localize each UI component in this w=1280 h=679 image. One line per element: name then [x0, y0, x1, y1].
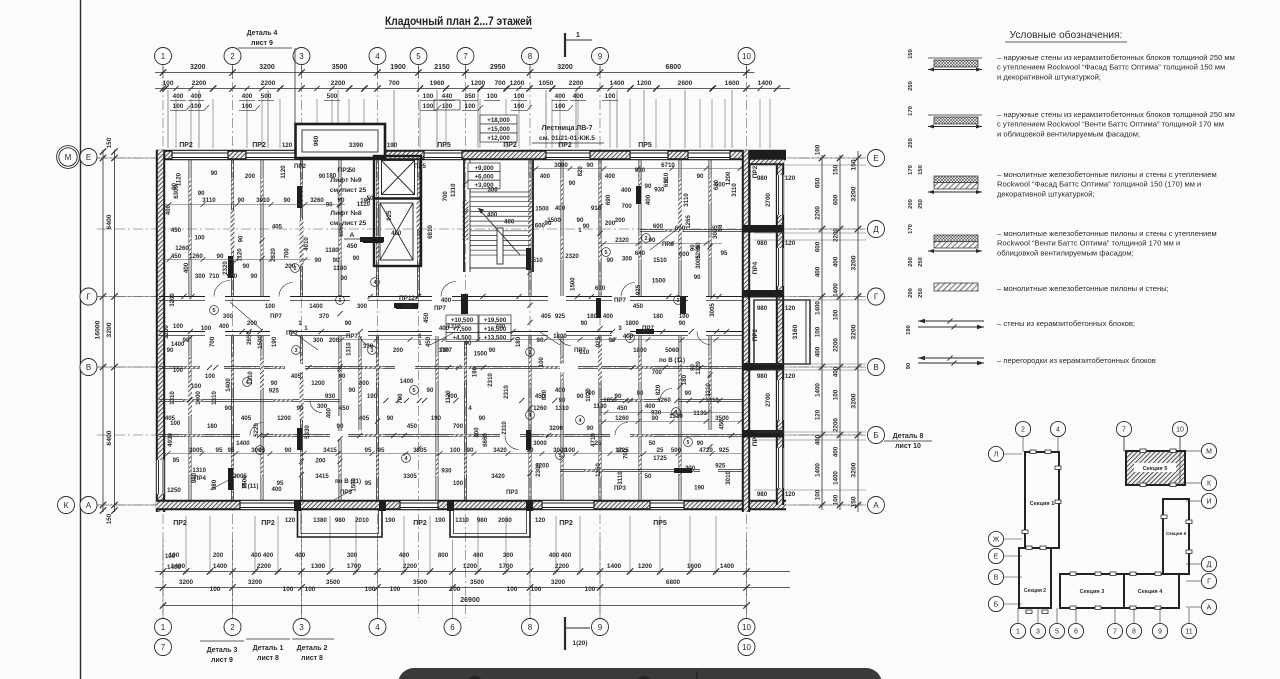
- svg-text:8: 8: [1132, 629, 1136, 636]
- svg-text:2200: 2200: [257, 563, 272, 570]
- right pylon at Д: [742, 225, 784, 233]
- svg-text:9: 9: [1158, 629, 1162, 636]
- circled reference numbers: [291, 264, 300, 273]
- right side wing extension lines: [754, 164, 866, 166]
- svg-text:3415: 3415: [323, 447, 337, 454]
- svg-text:650: 650: [815, 177, 822, 188]
- svg-text:90: 90: [353, 256, 360, 262]
- svg-text:820: 820: [541, 389, 548, 400]
- right dimension chains: [821, 155, 823, 510]
- svg-text:1500: 1500: [535, 205, 549, 212]
- corridor upper wall: [159, 296, 742, 298]
- svg-text:90: 90: [339, 373, 346, 380]
- svg-text:600: 600: [595, 285, 606, 292]
- svg-text:405: 405: [165, 415, 176, 422]
- svg-text:200: 200: [615, 217, 626, 224]
- svg-text:150: 150: [918, 165, 924, 175]
- svg-text:– наружные стены из керамзитоб: – наружные стены из керамзитобетонных бл…: [997, 53, 1235, 62]
- elevator shaft walls: [374, 156, 421, 266]
- corridor door gaps: [205, 296, 225, 302]
- svg-text:3200: 3200: [248, 579, 263, 586]
- svg-text:100: 100: [201, 325, 212, 332]
- svg-text:ПР7: ПР7: [614, 297, 627, 304]
- svg-text:2320: 2320: [565, 253, 579, 260]
- svg-text:1400: 1400: [833, 471, 840, 485]
- bottom exterior wall: [156, 500, 786, 510]
- svg-text:2200: 2200: [833, 418, 840, 432]
- svg-text:Деталь 2: Деталь 2: [297, 645, 328, 652]
- svg-text:100: 100: [390, 586, 401, 593]
- svg-text:700: 700: [283, 248, 290, 259]
- svg-text:5: 5: [413, 388, 416, 394]
- svg-text:3200: 3200: [851, 186, 858, 201]
- svg-text:925: 925: [715, 462, 726, 469]
- svg-text:90: 90: [326, 201, 333, 208]
- scale flag top: [564, 33, 566, 57]
- extra tick marks on partitions: [674, 398, 679, 403]
- svg-text:2700: 2700: [765, 393, 772, 407]
- svg-text:ПР3: ПР3: [506, 489, 519, 496]
- svg-text:3420: 3420: [493, 447, 507, 454]
- svg-text:+9,000: +9,000: [474, 165, 494, 172]
- svg-text:ПР2: ПР2: [173, 520, 187, 527]
- svg-text:10: 10: [742, 623, 751, 632]
- svg-text:90: 90: [690, 244, 697, 251]
- svg-text:180: 180: [587, 313, 598, 320]
- svg-text:1200: 1200: [510, 80, 525, 87]
- svg-text:405: 405: [359, 415, 370, 422]
- svg-text:1200: 1200: [535, 463, 549, 470]
- svg-text:1200: 1200: [277, 415, 291, 422]
- svg-text:200: 200: [329, 337, 340, 344]
- svg-text:100: 100: [450, 447, 461, 454]
- svg-text:90: 90: [238, 235, 245, 242]
- svg-text:1500: 1500: [257, 335, 264, 349]
- svg-text:1260: 1260: [175, 245, 189, 252]
- svg-text:90: 90: [427, 387, 434, 394]
- svg-text:11: 11: [1185, 629, 1192, 636]
- svg-text:250: 250: [918, 257, 924, 267]
- svg-text:Секция 3: Секция 3: [1080, 589, 1105, 595]
- svg-text:90: 90: [225, 405, 232, 412]
- svg-text:1400: 1400: [225, 378, 232, 392]
- svg-text:3390: 3390: [349, 142, 364, 149]
- svg-text:декоративной штукатуркой;: декоративной штукатуркой;: [997, 189, 1095, 198]
- svg-text:26900: 26900: [460, 597, 480, 604]
- svg-text:1180: 1180: [325, 247, 339, 254]
- svg-text:3200: 3200: [259, 64, 275, 71]
- svg-text:610: 610: [663, 176, 670, 187]
- svg-text:95: 95: [216, 447, 223, 454]
- svg-text:90: 90: [285, 447, 292, 454]
- svg-text:500: 500: [327, 93, 338, 100]
- svg-text:1725: 1725: [653, 455, 667, 462]
- svg-text:3110: 3110: [731, 183, 738, 197]
- svg-text:Е: Е: [994, 554, 999, 561]
- svg-text:400: 400: [326, 407, 333, 418]
- svg-text:190: 190: [385, 517, 396, 524]
- svg-text:10: 10: [742, 643, 751, 652]
- ПР12 pylon: [396, 303, 418, 309]
- svg-text:3305: 3305: [403, 473, 417, 480]
- svg-text:– монолитные железобетонные пи: – монолитные железобетонные пилоны и сте…: [997, 284, 1169, 293]
- svg-text:100: 100: [585, 586, 596, 593]
- svg-text:1400: 1400: [720, 563, 735, 570]
- svg-text:170: 170: [908, 224, 914, 234]
- svg-text:4010: 4010: [303, 237, 310, 251]
- svg-text:700: 700: [442, 191, 449, 202]
- svg-text:1800: 1800: [625, 320, 639, 327]
- stair steps: [470, 191, 531, 193]
- interior vertical partitions lower rooms: [188, 336, 190, 500]
- svg-text:120: 120: [785, 175, 796, 182]
- svg-text:4720: 4720: [699, 447, 713, 454]
- svg-text:лист 8: лист 8: [301, 655, 323, 662]
- svg-text:90: 90: [387, 415, 394, 422]
- svg-text:980: 980: [757, 240, 768, 247]
- svg-text:ПР2: ПР2: [294, 163, 307, 170]
- svg-text:925: 925: [595, 336, 602, 347]
- svg-text:1500: 1500: [350, 478, 357, 492]
- svg-text:100: 100: [195, 234, 206, 241]
- svg-text:1050: 1050: [603, 397, 617, 404]
- svg-text:400: 400: [540, 173, 551, 180]
- svg-text:ПР9: ПР9: [662, 241, 675, 248]
- svg-text:90: 90: [697, 173, 704, 180]
- svg-text:90: 90: [338, 197, 345, 204]
- svg-text:450: 450: [617, 405, 628, 412]
- axis circles right: [868, 150, 885, 167]
- right main wall axis 10: [742, 150, 750, 512]
- svg-text:640: 640: [635, 250, 646, 257]
- svg-text:190: 190: [906, 325, 912, 335]
- svg-text:5330: 5330: [304, 425, 311, 439]
- svg-text:1400: 1400: [815, 463, 822, 477]
- svg-text:90: 90: [167, 347, 174, 354]
- svg-text:980: 980: [757, 305, 768, 312]
- svg-text:ПР2: ПР2: [752, 165, 759, 178]
- svg-text:25: 25: [657, 447, 664, 454]
- svg-text:200: 200: [393, 347, 404, 354]
- svg-text:925: 925: [386, 210, 393, 221]
- svg-text:600: 600: [653, 223, 664, 230]
- svg-text:Секция 6: Секция 6: [1166, 531, 1187, 536]
- svg-text:405: 405: [241, 415, 252, 422]
- svg-text:800: 800: [438, 552, 449, 559]
- bottom toolbar bar: [398, 668, 882, 679]
- svg-text:Деталь 1: Деталь 1: [253, 645, 284, 652]
- svg-text:1130: 1130: [593, 403, 607, 410]
- svg-text:400: 400: [555, 387, 566, 394]
- svg-text:6710: 6710: [661, 162, 675, 169]
- key plan section 3: [1060, 574, 1124, 608]
- svg-text:400: 400: [242, 93, 253, 100]
- svg-text:300: 300: [622, 256, 633, 263]
- svg-text:90: 90: [581, 320, 588, 327]
- svg-text:7: 7: [463, 52, 468, 61]
- svg-text:6400: 6400: [106, 430, 113, 445]
- svg-text:1500: 1500: [652, 277, 666, 284]
- svg-text:6800: 6800: [665, 64, 681, 71]
- svg-text:1200: 1200: [471, 80, 486, 87]
- svg-text:Секция 5: Секция 5: [1143, 466, 1168, 472]
- svg-text:10: 10: [1176, 427, 1184, 434]
- svg-text:ПР4: ПР4: [752, 261, 759, 274]
- svg-text:1500: 1500: [474, 351, 488, 358]
- svg-text:3110: 3110: [683, 193, 690, 207]
- svg-text:2200: 2200: [192, 80, 207, 87]
- axis circles top row: [155, 48, 172, 65]
- svg-text:1200: 1200: [637, 80, 652, 87]
- svg-text:400: 400: [441, 297, 452, 304]
- svg-text:190: 190: [694, 485, 705, 492]
- svg-text:Б: Б: [873, 431, 878, 440]
- svg-text:400: 400: [555, 93, 566, 100]
- svg-text:190: 190: [271, 336, 278, 347]
- svg-text:Деталь 8: Деталь 8: [893, 433, 924, 440]
- svg-text:2310: 2310: [487, 373, 494, 387]
- svg-text:3110: 3110: [617, 471, 624, 485]
- svg-text:980: 980: [313, 135, 320, 146]
- svg-text:9: 9: [598, 52, 603, 61]
- svg-text:820: 820: [655, 384, 662, 395]
- top exterior wall: [156, 150, 786, 160]
- svg-text:М: М: [65, 153, 72, 162]
- svg-text:ПР7: ПР7: [434, 305, 447, 312]
- legend item 5 symbol: [934, 283, 978, 291]
- svg-text:90: 90: [217, 253, 224, 260]
- svg-text:ПР2: ПР2: [752, 328, 759, 341]
- svg-text:100: 100: [442, 103, 453, 110]
- axis circles left: [59, 148, 77, 166]
- svg-text:3210: 3210: [705, 383, 712, 397]
- svg-text:ПР5: ПР5: [437, 142, 451, 149]
- svg-text:ПР2: ПР2: [413, 520, 427, 527]
- svg-text:400: 400: [555, 205, 566, 212]
- svg-text:95: 95: [365, 447, 372, 454]
- svg-text:1500: 1500: [570, 277, 577, 291]
- svg-text:3200: 3200: [557, 64, 573, 71]
- svg-text:лист 10: лист 10: [895, 443, 921, 450]
- svg-text:3: 3: [299, 623, 304, 632]
- svg-text:100: 100: [265, 303, 276, 310]
- svg-text:3200: 3200: [851, 462, 858, 477]
- svg-text:ПР7: ПР7: [346, 333, 359, 340]
- svg-text:100: 100: [191, 103, 202, 110]
- svg-text:190: 190: [435, 517, 446, 524]
- svg-text:1600: 1600: [725, 80, 740, 87]
- interior vertical partitions upper rooms: [188, 160, 190, 296]
- svg-text:2200: 2200: [833, 228, 840, 242]
- elevator cab 1 (Лифт №9): [382, 161, 415, 195]
- svg-text:190: 190: [360, 198, 371, 205]
- svg-text:5: 5: [213, 308, 216, 314]
- svg-text:90: 90: [685, 390, 692, 397]
- svg-text:Rockwool “Фасад Баттс Оптима”: Rockwool “Фасад Баттс Оптима” толщиной 1…: [997, 180, 1201, 189]
- svg-text:190: 190: [431, 415, 442, 422]
- svg-text:1310: 1310: [447, 323, 461, 330]
- svg-text:1260: 1260: [533, 405, 547, 412]
- svg-text:1200: 1200: [311, 380, 325, 387]
- svg-text:5220: 5220: [253, 423, 260, 437]
- svg-text:450: 450: [171, 253, 182, 260]
- svg-text:90: 90: [284, 197, 291, 204]
- svg-text:1: 1: [161, 52, 166, 61]
- svg-text:190: 190: [367, 393, 378, 400]
- svg-text:2700: 2700: [765, 193, 772, 207]
- svg-text:100: 100: [283, 586, 294, 593]
- svg-text:Г: Г: [86, 292, 91, 301]
- svg-text:1380: 1380: [313, 517, 327, 524]
- stair stringer: [497, 228, 503, 264]
- svg-text:7: 7: [1113, 629, 1117, 636]
- svg-text:910: 910: [227, 273, 238, 280]
- bottom dimension chains: [155, 571, 790, 573]
- svg-text:2600: 2600: [678, 80, 693, 87]
- svg-text:2310: 2310: [503, 385, 510, 399]
- top right corner pylon: [742, 150, 786, 159]
- svg-text:1200: 1200: [638, 563, 653, 570]
- key plan section 4: [1124, 574, 1179, 608]
- svg-text:980: 980: [211, 479, 218, 490]
- svg-text:180: 180: [515, 336, 522, 347]
- svg-text:100: 100: [162, 80, 173, 87]
- svg-text:90: 90: [349, 387, 356, 394]
- svg-text:1500: 1500: [547, 217, 561, 224]
- svg-text:100: 100: [210, 586, 221, 593]
- svg-text:95: 95: [721, 250, 728, 257]
- svg-text:98: 98: [717, 224, 724, 231]
- legend item 2 symbol: [928, 126, 982, 128]
- svg-text:ПР2: ПР2: [559, 520, 573, 527]
- svg-text:3010: 3010: [725, 471, 732, 485]
- svg-text:4: 4: [375, 623, 380, 632]
- svg-text:95: 95: [378, 447, 385, 454]
- svg-text:700: 700: [652, 369, 663, 376]
- svg-text:1310: 1310: [450, 183, 457, 197]
- svg-text:1020: 1020: [585, 388, 592, 402]
- svg-text:В: В: [994, 575, 999, 582]
- svg-text:А: А: [86, 501, 92, 510]
- svg-text:300: 300: [488, 186, 499, 193]
- svg-text:700: 700: [494, 80, 505, 87]
- svg-text:+12,000: +12,000: [487, 135, 510, 142]
- svg-text:400: 400: [295, 552, 306, 559]
- svg-text:700: 700: [209, 336, 216, 347]
- svg-text:90: 90: [271, 380, 278, 387]
- svg-text:90: 90: [583, 223, 590, 230]
- svg-text:с утеплением Rockwool “Фасад Б: с утеплением Rockwool “Фасад Баттс Оптим…: [997, 63, 1225, 72]
- svg-text:400 400: 400 400: [549, 552, 572, 559]
- svg-text:6400: 6400: [106, 214, 113, 229]
- svg-text:1260: 1260: [615, 415, 629, 422]
- svg-text:700: 700: [388, 80, 399, 87]
- interior horizontal partitions: [159, 399, 340, 401]
- left dimension chain: [102, 150, 104, 512]
- svg-text:3005: 3005: [695, 255, 702, 269]
- svg-text:3200: 3200: [179, 579, 194, 586]
- svg-text:930: 930: [325, 393, 336, 400]
- svg-text:1700: 1700: [347, 563, 362, 570]
- svg-text:190: 190: [387, 142, 398, 149]
- svg-text:А: А: [350, 232, 355, 239]
- svg-text:6060: 6060: [338, 223, 345, 237]
- svg-text:1: 1: [576, 32, 580, 39]
- svg-text:ПР2: ПР2: [503, 142, 517, 149]
- svg-text:400: 400: [621, 187, 632, 194]
- svg-text:2200: 2200: [569, 80, 584, 87]
- svg-text:200: 200: [450, 586, 461, 593]
- svg-text:3160: 3160: [792, 324, 799, 339]
- svg-text:ПР3: ПР3: [614, 485, 627, 492]
- svg-text:3005: 3005: [709, 303, 716, 317]
- key plan axis circles left: [988, 446, 1003, 461]
- svg-text:Условные обозначения:: Условные обозначения:: [1010, 29, 1123, 41]
- svg-text:90: 90: [679, 320, 686, 327]
- svg-text:400: 400: [487, 212, 498, 219]
- svg-text:350: 350: [465, 93, 476, 100]
- svg-text:450: 450: [425, 336, 432, 347]
- svg-text:3200: 3200: [163, 325, 170, 339]
- svg-text:3200: 3200: [851, 324, 858, 339]
- svg-text:3: 3: [299, 52, 304, 61]
- top row3 extra ticks: [173, 86, 178, 91]
- sheet frame line: [80, 0, 82, 679]
- svg-text:300: 300: [357, 303, 368, 310]
- svg-text:100: 100: [679, 313, 690, 320]
- right wing Е-Д walls: [750, 158, 784, 165]
- svg-text:600: 600: [679, 251, 690, 258]
- svg-text:2: 2: [645, 236, 648, 242]
- svg-text:3200: 3200: [169, 293, 176, 307]
- svg-text:100: 100: [514, 93, 525, 100]
- svg-text:120: 120: [785, 240, 796, 247]
- svg-text:1960: 1960: [430, 80, 445, 87]
- black pylons: [228, 256, 233, 278]
- legend item 1 symbol: [928, 69, 982, 71]
- svg-text:Деталь 4: Деталь 4: [247, 30, 278, 37]
- svg-text:10: 10: [742, 52, 751, 61]
- svg-text:200: 200: [908, 257, 914, 267]
- svg-text:910: 910: [403, 303, 414, 310]
- svg-text:100: 100: [305, 586, 316, 593]
- svg-text:180: 180: [681, 374, 688, 385]
- svg-text:ПР7: ПР7: [286, 330, 299, 337]
- svg-text:ПР12: ПР12: [399, 295, 415, 302]
- svg-text:2: 2: [230, 52, 235, 61]
- svg-text:2200: 2200: [261, 80, 276, 87]
- svg-text:90: 90: [537, 337, 544, 344]
- svg-text:100: 100: [833, 389, 840, 400]
- level mark table +9000: [468, 163, 500, 172]
- svg-text:1400: 1400: [815, 301, 822, 315]
- key plan axis circles right: [1201, 443, 1216, 458]
- svg-text:3200: 3200: [851, 393, 858, 408]
- svg-text:450: 450: [423, 312, 430, 323]
- svg-text:400 400: 400 400: [251, 552, 274, 559]
- svg-text:6810: 6810: [427, 225, 434, 239]
- svg-text:1120: 1120: [445, 390, 452, 404]
- svg-text:90: 90: [489, 347, 496, 354]
- svg-text:1200: 1200: [463, 563, 478, 570]
- svg-text:1120: 1120: [280, 165, 287, 179]
- svg-text:90: 90: [319, 173, 326, 180]
- svg-text:Д: Д: [873, 225, 879, 234]
- svg-text:500: 500: [261, 93, 272, 100]
- svg-text:лист 9: лист 9: [251, 40, 273, 47]
- svg-text:с утеплением Rockwool “Венти Б: с утеплением Rockwool “Венти Баттс Оптим…: [997, 120, 1224, 129]
- svg-text:980: 980: [191, 472, 198, 483]
